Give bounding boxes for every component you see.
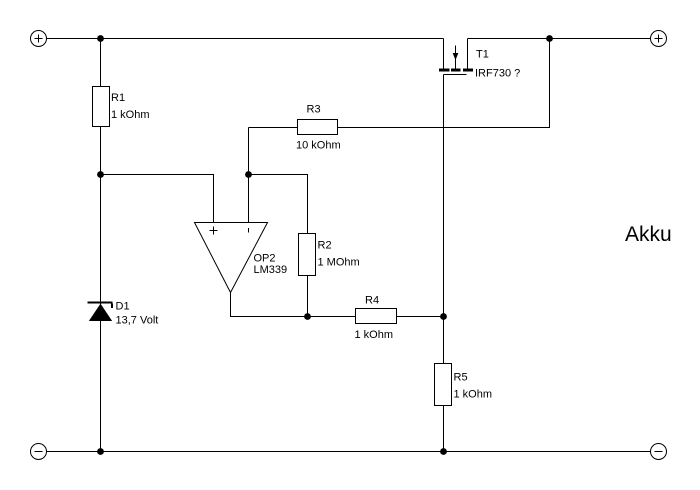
wire R4 right lead [397,316,444,318]
wire R2 top feed [249,175,308,234]
svg-text:1 kOhm: 1 kOhm [111,109,150,121]
junction node top rail R1 [97,35,104,42]
svg-text:13,7 Volt: 13,7 Volt [116,315,159,327]
svg-text:10 kOhm: 10 kOhm [296,140,341,152]
diode D1 cathode bar [88,302,113,304]
wire left branch R1/D1 vertical [100,39,102,452]
svg-text:1 MOhm: 1 MOhm [318,257,360,269]
svg-text:1 kOhm: 1 kOhm [454,389,493,401]
resistor R4 [356,309,397,324]
resistor R2 [299,234,316,276]
svg-text:R5: R5 [454,372,468,384]
resistor R5 [435,364,452,406]
transistor T1 gate line [444,74,467,76]
wire noninverting input feed [101,175,214,223]
svg-text:R1: R1 [111,92,125,104]
junction node R1 bottom [97,171,104,178]
wire R3 left lead [249,127,298,129]
resistor R1 [93,87,110,127]
svg-text:OP2: OP2 [254,253,276,265]
transistor T1 drain stub [443,39,445,69]
junction node gate R4 R5 [440,313,447,320]
wire gate drop to R5 and ground [443,75,445,452]
wire R3 right lead to source node [338,39,550,128]
resistor R3 [298,120,338,135]
svg-text:Akku: Akku [625,223,672,246]
svg-text:1 kOhm: 1 kOhm [355,329,394,341]
op-amp plus input mark [210,227,218,235]
op-amp U1 triangle [195,223,268,293]
diode D1 cathode hook [111,304,113,309]
wire R2 bottom lead [307,276,309,317]
junction node top rail source [546,35,553,42]
transistor T1 channel bar 2 [451,69,461,72]
transistor T1 substrate arrowhead [453,53,459,60]
wire top rail left segment [47,38,444,40]
diode D1 triangle [90,305,111,321]
wire bottom rail [47,451,651,453]
svg-text:D1: D1 [116,301,130,313]
svg-text:LM339: LM339 [254,264,288,276]
junction node op-amp output R2 [304,313,311,320]
junction node inverting input [245,171,252,178]
wire top rail right segment [468,38,651,40]
wire op-amp output [231,293,356,317]
svg-text:R3: R3 [307,104,321,116]
junction node bottom rail left [97,448,104,455]
wire inverting input vertical [248,128,250,223]
svg-text:R2: R2 [318,240,332,252]
transistor T1 channel bar 1 [439,69,450,72]
transistor T1 channel bar 3 [463,69,473,72]
junction node bottom rail R5 [440,448,447,455]
terminal plus top-right [651,31,667,47]
transistor T1 source stub [467,39,469,69]
terminal plus top-left [31,31,47,47]
terminal minus bottom-right [651,444,667,460]
op-amp minus input mark [248,228,250,233]
svg-text:IRF730 ?: IRF730 ? [475,68,520,80]
svg-text:T1: T1 [476,49,489,61]
svg-text:R4: R4 [365,295,379,307]
transistor T1 substrate arrow line [455,46,457,69]
terminal minus bottom-left [31,444,47,460]
